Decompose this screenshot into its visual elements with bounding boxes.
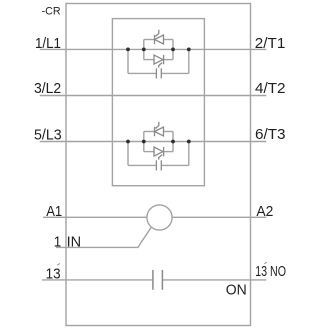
bypass loop vertical right L1 [188,49,190,73]
svg-text:4/T2: 4/T2 [255,81,286,97]
soft starter outline -CR [66,4,251,326]
svg-text:1: 1 [54,235,62,251]
node L1-d [187,48,191,52]
bypass loop vertical left L3 [127,142,129,166]
node L1-a [126,48,130,52]
node L1-c [171,48,175,52]
thyristor loop vertical right L3 [172,132,174,152]
wire 5/L3 to 6/T3 [40,141,266,143]
node L3-a [126,140,130,144]
phase L1 thyristor group [128,40,189,74]
wire 1 IN [56,227,151,247]
bypass lead right L1 [161,72,189,74]
thyristor loop vertical left L1 [143,40,145,60]
thyristor V2 (L1 bottom, cathode right) [154,55,163,64]
node L1-b [142,48,146,52]
bypass lead right L3 [161,164,189,166]
svg-text:A2: A2 [256,204,273,220]
thyristor V4 (L3 bottom, cathode right) [154,147,163,156]
svg-text:2/T1: 2/T1 [255,36,286,52]
phase L3 thyristor group [128,132,189,166]
svg-text:13 NO: 13 NO [255,264,286,280]
bypass lead left L3 [128,164,156,166]
top branch wire L3 [144,131,155,133]
bypass contact L3 [155,160,157,170]
svg-text:IN: IN [67,235,82,251]
wire 13 NO right [162,279,266,281]
auxiliary contact 13 NO [153,270,163,290]
bypass loop vertical right L3 [188,142,190,166]
svg-text:6/T3: 6/T3 [255,127,286,143]
svg-text:13: 13 [46,267,61,283]
node L3-d [187,140,191,144]
thyristor loop vertical right L1 [172,40,174,60]
wire 1/L1 to 2/T1 [40,48,266,50]
svg-text:ON: ON [226,282,247,298]
wire 13 left [42,279,153,281]
svg-text:5/L3: 5/L3 [34,128,62,144]
thyristor loop vertical left L3 [143,132,145,152]
thyristor V1 (L1 top, cathode left) [154,35,156,44]
thyristor V3 (L3 top, cathode left) [154,127,156,136]
tick mark over 13 NO [264,262,267,264]
wire 3/L2 to 4/T2 [40,95,266,97]
wire A1 [43,216,147,218]
bypass loop vertical left L1 [127,49,129,73]
svg-text:-CR: -CR [42,6,61,18]
bypass lead left L1 [128,72,156,74]
node L3-c [171,140,175,144]
bypass contact L1 [155,68,157,78]
svg-text:3/L2: 3/L2 [34,81,61,97]
coil circle A1-A2 [147,205,172,230]
tick mark over 13 (left) [57,264,60,266]
thyristor power block outline [112,19,204,186]
svg-text:A1: A1 [46,204,62,220]
bottom branch wire L3 [144,151,154,153]
bottom branch wire L1 [144,59,154,61]
top branch wire L1 [144,39,155,41]
node L3-b [142,140,146,144]
svg-text:1/L1: 1/L1 [35,36,61,52]
wire A2 [172,216,266,218]
